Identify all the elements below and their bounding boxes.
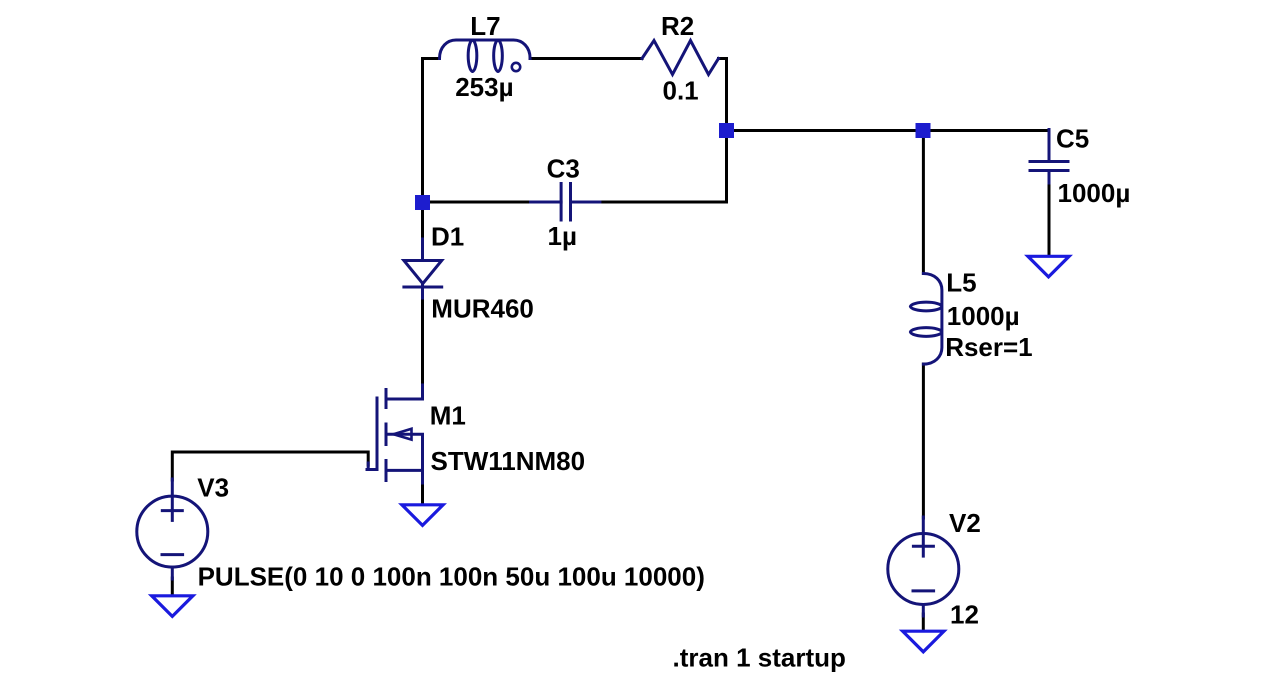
wire: C5 bottom to ground	[1048, 182, 1051, 256]
svg-text:M1: M1	[430, 401, 466, 431]
svg-text:0.1: 0.1	[663, 76, 699, 106]
svg-text:STW11NM80: STW11NM80	[431, 446, 586, 476]
svg-text:D1: D1	[431, 222, 464, 252]
wire: node down to C3 right lead	[600, 131, 727, 203]
wire: R2 right corner down to node	[719, 59, 727, 131]
wire: V3 bottom to ground	[171, 578, 174, 595]
capacitor C5	[1030, 130, 1068, 184]
svg-text:L5: L5	[946, 268, 976, 298]
svg-text:.tran 1 startup: .tran 1 startup	[673, 642, 846, 672]
wire: V2 bottom to ground	[922, 614, 925, 631]
svg-text:MUR460: MUR460	[431, 294, 534, 324]
diode D1	[404, 239, 442, 298]
wire: top-left vertical from L7 left lead down to C3-left node	[423, 59, 440, 203]
voltage source V2	[888, 517, 959, 616]
svg-text:R2: R2	[661, 11, 694, 41]
svg-text:1µ: 1µ	[548, 221, 577, 251]
ground below V2	[903, 631, 944, 652]
wire: C3 left lead to node	[423, 201, 531, 204]
svg-text:V3: V3	[197, 473, 229, 503]
ground below V3	[152, 596, 193, 617]
svg-text:C3: C3	[547, 154, 580, 184]
wire: between L7 and R2	[530, 57, 642, 60]
wire: L5 bottom to V2 top	[922, 364, 925, 518]
transistor M1 (NMOS)	[367, 385, 423, 483]
wire: diode D1 to M1 drain	[421, 297, 424, 386]
wire: node down to diode D1	[421, 202, 424, 241]
svg-text:L7: L7	[470, 11, 500, 41]
svg-text:V2: V2	[949, 508, 981, 538]
voltage source V3	[137, 479, 208, 579]
node junction at L7/C3/D1 branch	[415, 195, 430, 210]
resistor R2	[642, 41, 719, 75]
wire: V3 top to M1 gate	[172, 452, 368, 480]
wire: node to node horizontal bus	[727, 129, 924, 132]
svg-text:C5: C5	[1056, 124, 1089, 154]
ground below C5	[1028, 256, 1069, 277]
svg-text:Rser=1: Rser=1	[945, 332, 1032, 362]
svg-text:12: 12	[950, 600, 979, 630]
node junction at R2/C3 branch	[719, 123, 734, 138]
svg-text:253µ: 253µ	[455, 72, 513, 102]
inductor L5	[910, 274, 942, 365]
svg-text:1000µ: 1000µ	[947, 301, 1020, 331]
svg-text:PULSE(0 10 0 100n 100n 50u 100: PULSE(0 10 0 100n 100n 50u 100u 10000)	[198, 562, 705, 592]
inductor L7	[440, 40, 531, 72]
node junction at C5/L5 branch	[916, 123, 931, 138]
ground below M1	[402, 505, 443, 526]
wire: node to C5 corner	[923, 129, 1049, 132]
wire: node down to L5	[922, 131, 925, 274]
svg-text:1000µ: 1000µ	[1058, 178, 1131, 208]
capacitor C3	[531, 184, 600, 221]
wire: M1 source to ground	[421, 482, 424, 504]
